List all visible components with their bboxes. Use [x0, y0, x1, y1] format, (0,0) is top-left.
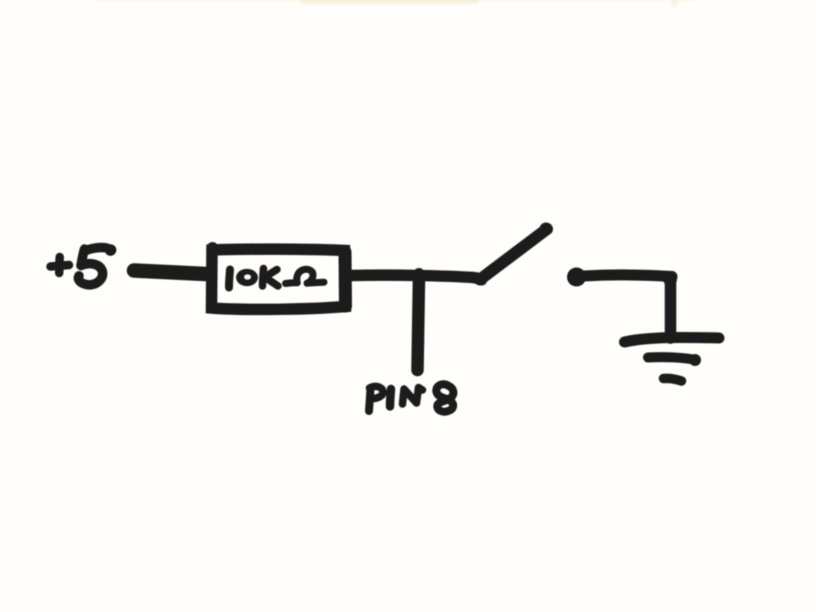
- omega symbol: [286, 269, 325, 283]
- resistor R1 box top-left corner nub: [207, 242, 218, 253]
- plus vertical stroke: [55, 257, 64, 273]
- ground symbol bar 1: [625, 338, 720, 343]
- switch contact dot: [567, 268, 586, 287]
- value label 10k ohm: [229, 269, 324, 288]
- plus horizontal stroke: [51, 265, 70, 267]
- ground symbol bar 2: [648, 357, 696, 360]
- digit 8: [436, 384, 453, 411]
- digit 5 top bar end blob: [105, 244, 117, 256]
- node junction / wire to PIN 8: [418, 276, 420, 370]
- ground symbol bar 3: [664, 378, 682, 381]
- digit 5 bowl: [78, 264, 102, 285]
- corner blob: [663, 272, 677, 286]
- wire corner down to ground: [665, 277, 677, 338]
- digit 1: [229, 270, 230, 288]
- digit 5 stem: [81, 249, 85, 266]
- letter k leg: [266, 278, 279, 287]
- wire from +5 to resistor R1: [134, 271, 206, 275]
- digit 0: [236, 269, 258, 286]
- letter P stem: [369, 389, 371, 412]
- label PIN 8: [369, 384, 453, 411]
- wire from dot to ground corner: [584, 275, 672, 277]
- letter I: [390, 389, 391, 407]
- node +5 label: [51, 244, 117, 285]
- ground symbol bar 2 end blob: [689, 354, 701, 366]
- letter k stem: [263, 269, 264, 287]
- letter N: [403, 388, 423, 405]
- scan smudge at top edge: [95, 0, 695, 6]
- letter k upper arm: [264, 270, 278, 278]
- switch blade SW1: [480, 229, 547, 280]
- switch blade tip blob: [540, 223, 553, 236]
- letter P bowl: [370, 386, 384, 398]
- resistor R1 box: [212, 249, 346, 309]
- junction nub: [414, 268, 425, 279]
- digit 5 top bar: [85, 248, 112, 251]
- resistor R1 box right edge (thicker): [339, 252, 353, 306]
- wire from R1 to switch junction: [351, 275, 482, 280]
